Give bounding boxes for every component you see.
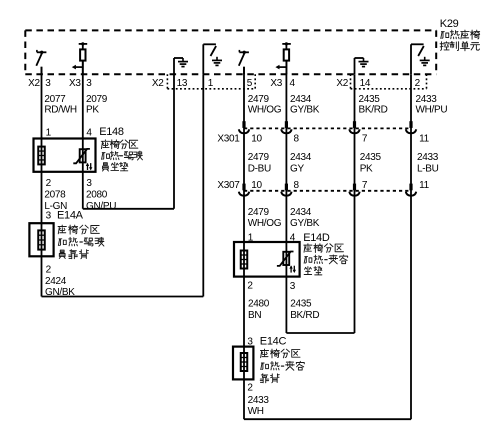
svg-text:2424: 2424: [45, 276, 67, 287]
svg-text:BK/RD: BK/RD: [359, 104, 388, 115]
svg-text:L-BU: L-BU: [417, 163, 439, 174]
svg-text:K29: K29: [440, 18, 459, 30]
svg-text:PK: PK: [360, 163, 373, 174]
svg-text:2: 2: [247, 281, 253, 292]
svg-text:10: 10: [251, 180, 262, 191]
svg-text:8: 8: [294, 180, 300, 191]
svg-text:RD/WH: RD/WH: [44, 104, 76, 115]
svg-text:11: 11: [419, 180, 430, 191]
svg-text:2: 2: [247, 383, 253, 394]
svg-text:2: 2: [46, 178, 52, 189]
svg-text:2479: 2479: [248, 207, 270, 218]
svg-text:2080: 2080: [86, 190, 108, 201]
svg-text:2433: 2433: [417, 152, 439, 163]
svg-text:GY/BK: GY/BK: [290, 218, 320, 229]
svg-text:GN/PU: GN/PU: [86, 201, 116, 212]
svg-text:E148: E148: [99, 126, 124, 138]
svg-text:13: 13: [177, 78, 188, 89]
svg-text:GY/BK: GY/BK: [290, 104, 320, 115]
svg-text:WH/PU: WH/PU: [416, 104, 448, 115]
svg-text:2434: 2434: [290, 207, 312, 218]
svg-text:PK: PK: [86, 104, 99, 115]
svg-text:X2: X2: [152, 78, 164, 89]
svg-text:3: 3: [45, 78, 51, 89]
svg-text:2433: 2433: [248, 395, 270, 406]
svg-text:8: 8: [294, 134, 300, 145]
svg-text:X3: X3: [69, 78, 81, 89]
svg-text:BN: BN: [248, 310, 261, 321]
svg-text:4: 4: [86, 128, 92, 139]
svg-text:GY: GY: [290, 163, 304, 174]
svg-text:2078: 2078: [44, 190, 66, 201]
svg-text:4: 4: [290, 78, 296, 89]
svg-text:2435: 2435: [290, 299, 312, 310]
svg-text:7: 7: [362, 180, 368, 191]
svg-text:X2: X2: [28, 78, 40, 89]
svg-text:E14A: E14A: [57, 209, 84, 221]
svg-text:3: 3: [86, 78, 92, 89]
svg-text:2480: 2480: [248, 299, 270, 310]
svg-text:X307: X307: [217, 180, 240, 191]
svg-text:11: 11: [419, 134, 430, 145]
svg-text:14: 14: [360, 78, 371, 89]
svg-text:7: 7: [362, 134, 368, 145]
svg-text:3: 3: [46, 210, 52, 221]
svg-text:1: 1: [46, 128, 52, 139]
svg-text:X3: X3: [270, 78, 282, 89]
svg-text:10: 10: [251, 134, 262, 145]
svg-text:2435: 2435: [360, 152, 382, 163]
svg-text:D-BU: D-BU: [248, 163, 271, 174]
svg-text:2479: 2479: [248, 152, 270, 163]
svg-text:WH/OG: WH/OG: [248, 104, 282, 115]
svg-text:3: 3: [290, 281, 296, 292]
svg-text:2: 2: [415, 78, 421, 89]
svg-text:X2: X2: [336, 78, 348, 89]
svg-text:2434: 2434: [290, 152, 312, 163]
svg-text:BK/RD: BK/RD: [290, 310, 319, 321]
svg-text:WH/OG: WH/OG: [248, 218, 282, 229]
svg-text:WH: WH: [248, 406, 264, 417]
svg-text:GN/BK: GN/BK: [45, 287, 75, 298]
svg-text:E14D: E14D: [303, 232, 330, 244]
svg-text:E14C: E14C: [260, 335, 287, 347]
svg-text:X301: X301: [217, 134, 240, 145]
svg-text:3: 3: [86, 178, 92, 189]
svg-text:1: 1: [208, 78, 214, 89]
svg-text:5: 5: [247, 78, 253, 89]
svg-text:2: 2: [46, 265, 52, 276]
